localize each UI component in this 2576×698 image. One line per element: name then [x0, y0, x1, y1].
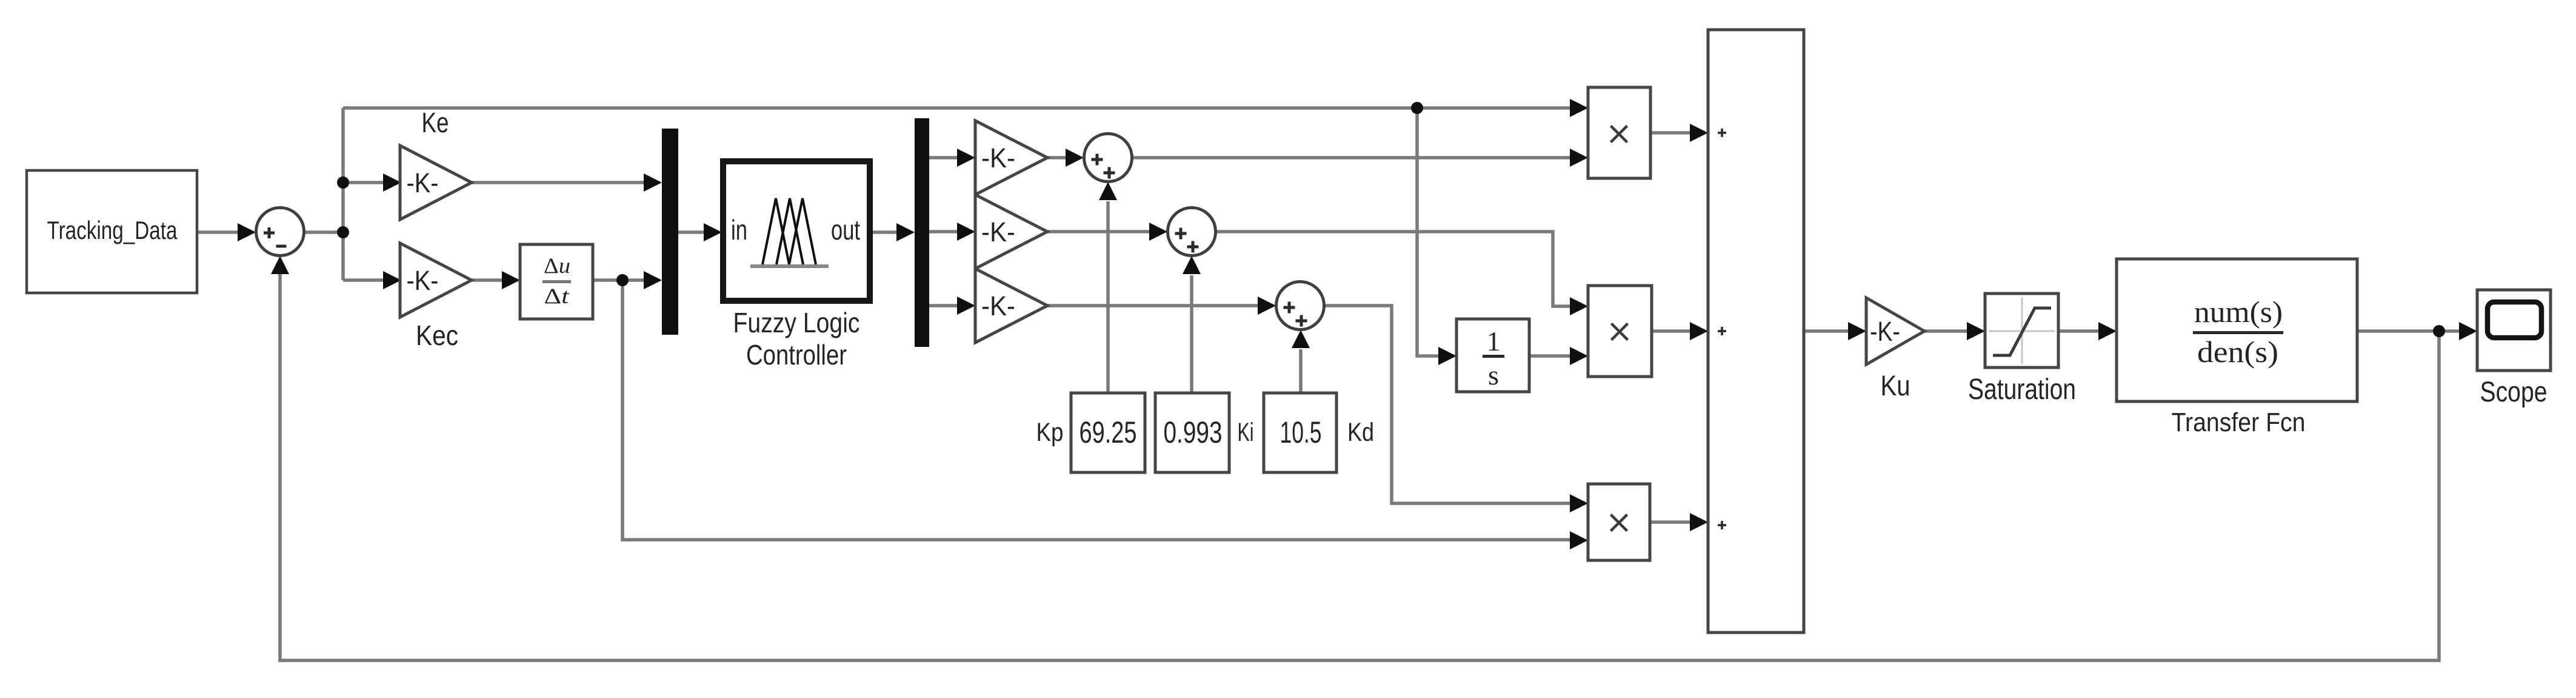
- svg-text:Ku: Ku: [1881, 369, 1910, 401]
- svg-text:Transfer Fcn: Transfer Fcn: [2172, 408, 2306, 437]
- svg-text:69.25: 69.25: [1079, 415, 1137, 449]
- svg-text:Scope: Scope: [2480, 375, 2548, 408]
- svg-text:Kp: Kp: [1036, 418, 1064, 447]
- svg-text:in: in: [731, 214, 747, 246]
- svg-text:Fuzzy Logic: Fuzzy Logic: [733, 307, 860, 338]
- svg-text:-K-: -K-: [407, 265, 439, 296]
- svg-text:-K-: -K-: [981, 216, 1015, 247]
- svg-text:Saturation: Saturation: [1968, 374, 2076, 406]
- svg-text:s: s: [1488, 360, 1499, 391]
- svg-text:Δu: Δu: [544, 253, 570, 278]
- svg-text:10.5: 10.5: [1280, 415, 1322, 449]
- svg-text:out: out: [831, 214, 860, 246]
- svg-text:den(s): den(s): [2197, 335, 2278, 369]
- svg-text:Controller: Controller: [746, 339, 847, 371]
- svg-text:Kd: Kd: [1347, 418, 1374, 447]
- svg-text:Kec: Kec: [416, 320, 458, 351]
- svg-text:Ki: Ki: [1238, 418, 1254, 447]
- svg-text:Tracking_Data: Tracking_Data: [47, 216, 178, 244]
- svg-text:-K-: -K-: [981, 290, 1015, 321]
- svg-text:0.993: 0.993: [1164, 415, 1223, 449]
- svg-text:num(s): num(s): [2194, 295, 2283, 329]
- svg-text:-K-: -K-: [407, 167, 439, 198]
- svg-text:Δt: Δt: [544, 284, 570, 308]
- svg-text:1: 1: [1487, 326, 1501, 357]
- svg-text:Ke: Ke: [422, 107, 449, 138]
- svg-text:-K-: -K-: [1870, 316, 1900, 347]
- svg-text:-K-: -K-: [981, 143, 1015, 173]
